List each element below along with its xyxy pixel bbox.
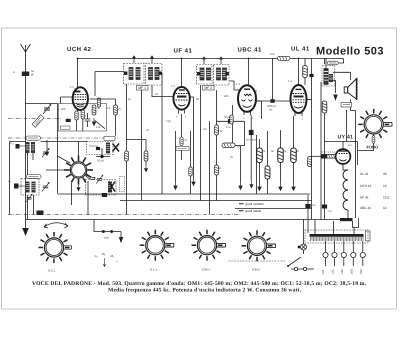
resistor R mid c1 xyxy=(144,151,148,161)
text coupling cap value xyxy=(267,105,277,112)
text mid resistor values xyxy=(184,130,299,170)
wire osc arrow xyxy=(46,140,48,148)
wire UL41 anode xyxy=(298,59,300,86)
wire UBC anode right xyxy=(256,101,262,119)
band switch S1 xyxy=(64,156,95,185)
svg-text:47 k: 47 k xyxy=(270,53,276,56)
wire plug dashed xyxy=(228,260,285,262)
resistor R grid stopper on rail xyxy=(278,56,291,60)
ground arrow speaker xyxy=(333,95,337,102)
svg-text:Media frequenza 445 kc. Potenz: Media frequenza 445 kc. Potenza d'uscita… xyxy=(108,288,302,294)
text pin labels UCH42 xyxy=(70,86,86,118)
capacitor C elec R10 xyxy=(265,166,270,179)
junction switch dots xyxy=(287,265,289,267)
wire R surge left xyxy=(312,155,322,157)
svg-text:1 M: 1 M xyxy=(96,126,100,129)
svg-text:F 3: F 3 xyxy=(236,83,240,86)
wire antenna lead xyxy=(25,76,27,228)
label MF1 xyxy=(137,86,149,91)
wire UY41 frame xyxy=(325,142,358,171)
svg-text:O.M.2: O.M.2 xyxy=(252,268,260,272)
resistor R1b xyxy=(75,111,78,120)
resistor R5 xyxy=(180,137,183,146)
wire L1 down xyxy=(28,153,34,178)
legend tone dots xyxy=(94,220,121,234)
wire R grid down xyxy=(324,113,326,142)
svg-text:0,1: 0,1 xyxy=(155,93,159,96)
wire UBC41 anode xyxy=(248,59,250,87)
svg-text:45: 45 xyxy=(383,172,387,176)
wire col j xyxy=(232,105,234,143)
speaker LS xyxy=(344,78,356,100)
wire UY41 cathode down xyxy=(343,164,348,170)
svg-text:0,5: 0,5 xyxy=(328,210,332,213)
blob cap AF xyxy=(249,130,253,134)
blob junction m1 xyxy=(306,204,310,207)
text AGC value xyxy=(224,116,231,129)
svg-text:UF 41: UF 41 xyxy=(174,48,193,55)
svg-text:MF 2: MF 2 xyxy=(204,86,212,90)
dial D1 xyxy=(39,232,72,263)
legend gradi xyxy=(246,202,265,213)
svg-text:UBC 41: UBC 41 xyxy=(360,206,371,210)
text blob AF value xyxy=(246,139,258,142)
tube UL41 xyxy=(291,85,307,116)
junction dot mains xyxy=(298,246,301,249)
wire right top vertical xyxy=(346,110,348,142)
wire col R5 down xyxy=(181,114,183,160)
wire section divider dash-dot xyxy=(8,214,240,216)
label MF2 xyxy=(203,86,215,91)
svg-text:F 4: F 4 xyxy=(288,80,292,83)
wire R10 down2 xyxy=(267,179,269,194)
text L1 label xyxy=(10,142,14,145)
resistor R2 xyxy=(92,105,96,115)
arrow legend xyxy=(103,258,105,267)
wire switch top lead xyxy=(78,142,80,156)
capacitor C2 trimmer xyxy=(43,104,51,114)
blob cap bus left xyxy=(37,211,44,216)
coil L2 xyxy=(14,179,39,196)
ground arrow col k xyxy=(250,181,253,188)
wire cathode bus xyxy=(120,200,312,202)
resistor R mid a1 xyxy=(125,151,129,161)
resistor R screen UL xyxy=(303,66,308,78)
wire col e xyxy=(190,131,192,194)
output transformer T1 xyxy=(322,59,338,87)
svg-text:14: 14 xyxy=(383,206,387,210)
wire UL41 screen xyxy=(307,99,311,101)
text misc values xyxy=(128,90,258,159)
wire divider dash-dot upper xyxy=(8,118,62,120)
svg-text:O.L.1: O.L.1 xyxy=(150,268,157,272)
text R stopper value xyxy=(270,53,276,56)
svg-text:R 9: R 9 xyxy=(253,90,258,93)
wire MF2 to UBC41 grid xyxy=(230,81,241,90)
wire OT to speaker xyxy=(333,72,350,93)
label box output xyxy=(341,103,352,108)
wire col R12 xyxy=(293,116,295,183)
wire chassis step xyxy=(353,218,359,228)
junction anode UF41 xyxy=(181,58,183,60)
wire coupling horizontal xyxy=(256,100,291,102)
tuning arc arrows xyxy=(44,223,68,228)
ground arrow left xyxy=(22,228,29,236)
ground arrow R12 xyxy=(292,183,295,191)
text heater voltages xyxy=(360,172,389,210)
tube UF41 xyxy=(173,87,189,114)
wire AVC bus xyxy=(58,193,311,195)
svg-text:UL 41: UL 41 xyxy=(360,172,369,176)
wire mid col b xyxy=(141,90,143,201)
chassis block xyxy=(340,218,353,221)
text pin labels UL41 xyxy=(288,80,303,121)
resistor R divider xyxy=(308,157,312,167)
trimmer C osc2 xyxy=(42,182,49,191)
capacitor C coupling UBC-UL blob xyxy=(270,99,274,103)
wire right vertical main xyxy=(311,59,313,220)
svg-text:tono: tono xyxy=(104,237,110,240)
svg-text:300: 300 xyxy=(224,95,229,98)
blob AGC xyxy=(228,120,232,124)
svg-text:0,1: 0,1 xyxy=(262,150,266,153)
capacitor C3 xyxy=(85,113,91,127)
ballast resistor comb xyxy=(305,230,368,243)
wire col i xyxy=(216,90,218,201)
wire UCH42 grid stub xyxy=(61,97,74,104)
svg-text:F 2: F 2 xyxy=(171,85,175,88)
svg-text:gradi metallici: gradi metallici xyxy=(246,202,265,206)
wire top B+ rail xyxy=(78,58,344,60)
svg-text:UBC 41: UBC 41 xyxy=(238,47,263,54)
blob junction m2 xyxy=(322,205,326,208)
text L2 label xyxy=(9,180,32,200)
svg-text:110: 110 xyxy=(322,269,325,274)
capacitor C elec 1 xyxy=(189,167,192,176)
terminal T4 xyxy=(351,241,356,266)
resistor R6b xyxy=(215,165,219,175)
oscillator section box xyxy=(59,104,107,132)
antenna xyxy=(21,44,31,76)
wire UCH42 anode xyxy=(77,59,79,88)
wire col R9 xyxy=(259,139,261,183)
wire diag osc xyxy=(95,121,105,129)
coil box L3 xyxy=(87,142,120,155)
blob cap osc left xyxy=(66,119,71,122)
switch mains xyxy=(288,250,304,266)
IF transformer MF1 xyxy=(124,64,163,86)
legend symbols xyxy=(239,204,244,211)
resistor R9 xyxy=(257,148,263,163)
resistor R7 horizontal xyxy=(222,143,235,148)
terminal T3 xyxy=(341,241,346,266)
svg-text:a 5: a 5 xyxy=(348,144,352,147)
svg-text:0,1: 0,1 xyxy=(107,107,111,110)
coil box L4 xyxy=(86,180,117,196)
text osc values xyxy=(61,107,121,129)
IF transformer MF2 xyxy=(197,65,230,86)
svg-text:125: 125 xyxy=(332,269,335,274)
svg-text:0,1: 0,1 xyxy=(269,109,273,112)
dial D3 xyxy=(192,230,226,261)
wire col R11 xyxy=(280,130,282,183)
vertical dashed label right xyxy=(120,177,125,192)
junction anode UL41 xyxy=(298,58,300,60)
svg-text:VOCE DEL PADRONE - Mod. 503. Q: VOCE DEL PADRONE - Mod. 503. Quattro gam… xyxy=(32,281,367,287)
wire col f xyxy=(190,97,194,178)
ground arrow col R7b xyxy=(239,182,242,190)
trimmer arrow MF1 primary xyxy=(133,56,135,63)
ground arrow osc xyxy=(45,148,48,156)
wire speaker return xyxy=(351,99,356,218)
resistor R11 xyxy=(278,148,284,163)
wire feed right xyxy=(321,82,325,220)
svg-text:M₂: M₂ xyxy=(111,254,115,258)
wire UY41 anode top xyxy=(342,142,344,150)
svg-text:A: A xyxy=(13,71,15,74)
wire lamp up xyxy=(303,229,305,244)
inductor heater chain xyxy=(343,170,348,210)
label R5 xyxy=(176,147,189,151)
junction anode UBC41 xyxy=(248,58,250,60)
capacitor C1 antenna series xyxy=(22,72,29,77)
plug pins xyxy=(291,267,314,270)
resistor lamp series xyxy=(372,136,375,144)
wire coil row top xyxy=(10,142,87,215)
wire rail end hook xyxy=(338,59,343,64)
text UY41 pin xyxy=(348,144,352,147)
resistor R surge xyxy=(321,152,335,158)
wire UL41 anode to OT xyxy=(324,59,326,65)
arrow tone xyxy=(119,232,122,243)
text C1 values xyxy=(13,70,34,77)
wire heater chain bottom xyxy=(347,210,349,218)
resistor R6 xyxy=(215,125,219,135)
svg-text:140: 140 xyxy=(341,269,344,274)
svg-text:UCH 42: UCH 42 xyxy=(67,46,92,53)
wire switch left lead xyxy=(46,169,64,171)
wire R mid c1 leads xyxy=(127,140,147,166)
trimmer C osc1 xyxy=(42,148,49,157)
svg-text:5 pF: 5 pF xyxy=(166,120,172,123)
svg-text:4,5 pF: 4,5 pF xyxy=(97,160,105,163)
terminal T2 xyxy=(332,241,337,266)
tube UCH42 xyxy=(73,87,88,113)
junction anode UCH42 xyxy=(77,58,79,60)
wire col k xyxy=(250,115,252,181)
blob screen tap xyxy=(310,74,314,77)
ground arrow R11 xyxy=(279,183,282,191)
wire mains feed 1 xyxy=(303,220,305,230)
label pill L3 xyxy=(104,137,115,141)
wire osc anode to MF1 xyxy=(95,72,124,97)
label box osc bottom xyxy=(61,126,71,129)
tube UY41 xyxy=(336,149,351,164)
text R7 value xyxy=(237,145,241,148)
resistor R grid UL41 xyxy=(322,101,327,113)
wire switch diag upleft xyxy=(58,156,71,163)
svg-text:0,1: 0,1 xyxy=(312,204,316,207)
text pin labels UBC41 xyxy=(236,83,253,120)
svg-text:M₁: M₁ xyxy=(102,252,105,256)
svg-text:UCH 42: UCH 42 xyxy=(360,184,372,188)
wire R screen leads xyxy=(304,59,306,86)
tube UBC41 xyxy=(238,85,256,115)
svg-text:200: 200 xyxy=(61,108,66,111)
wire UF41 anode xyxy=(181,59,183,89)
svg-text:0,5: 0,5 xyxy=(203,128,207,131)
trimmer arrow MF2 secondary xyxy=(220,57,222,64)
wire col h xyxy=(209,121,211,214)
blob cap OC xyxy=(96,147,100,150)
svg-text:0,1: 0,1 xyxy=(283,150,287,153)
coil L1 xyxy=(16,142,35,152)
label pill osc OC xyxy=(27,175,42,179)
dial sunburst fono xyxy=(358,109,392,140)
wire mains feed 2 xyxy=(333,221,335,234)
wire R4 down xyxy=(90,99,116,136)
text voltage taps xyxy=(322,269,363,274)
svg-text:FONO: FONO xyxy=(367,145,379,150)
ground arrow R mid c1 xyxy=(144,165,147,172)
wire oscillator divider dash-dot xyxy=(8,137,118,139)
svg-text:UY 41: UY 41 xyxy=(338,135,354,141)
svg-text:160: 160 xyxy=(351,269,354,274)
terminal T1 xyxy=(323,241,328,266)
text pin labels UF41 xyxy=(171,85,186,119)
wire grid feed vertical xyxy=(272,59,274,100)
resistor R4 xyxy=(114,105,118,115)
wire col R7b down xyxy=(240,146,242,183)
label pill osc OM xyxy=(26,136,41,140)
svg-text:1 M: 1 M xyxy=(218,130,222,133)
legend switch positions xyxy=(95,252,119,264)
svg-text:2 m: 2 m xyxy=(226,126,230,129)
trimmer arrow MF2 primary xyxy=(203,57,205,64)
wire col R10 xyxy=(267,131,269,166)
wire mains feed 3 xyxy=(315,220,354,234)
blob cap osc2 xyxy=(102,193,106,196)
trimmer arrow MF1 secondary xyxy=(151,56,153,63)
svg-text:O.M.1: O.M.1 xyxy=(202,268,210,272)
svg-text:14: 14 xyxy=(383,184,387,188)
svg-text:pF: pF xyxy=(31,74,34,77)
wire R1 down xyxy=(77,119,83,131)
svg-text:UL 41: UL 41 xyxy=(291,46,310,53)
wire MF1 to UF41 grid xyxy=(152,85,174,97)
wire col l xyxy=(256,135,258,194)
wire AGC line xyxy=(217,120,245,122)
ground arrow R9 xyxy=(258,183,261,191)
terminal T5 xyxy=(360,241,365,266)
ground R2 arrow xyxy=(92,118,95,126)
lamp pilot X xyxy=(301,244,307,250)
text m values xyxy=(312,204,332,213)
ground arrow col d xyxy=(174,182,177,190)
wire col g xyxy=(200,85,202,201)
svg-text:UF 41: UF 41 xyxy=(360,196,369,200)
svg-text:12,6: 12,6 xyxy=(383,196,389,200)
resistor R12 xyxy=(291,148,297,163)
svg-text:C₁₂: C₁₂ xyxy=(10,142,14,145)
resistor R1 xyxy=(81,110,84,119)
svg-text:220: 220 xyxy=(360,269,363,274)
text blob value xyxy=(97,160,105,163)
svg-text:Modello 503: Modello 503 xyxy=(316,46,384,58)
wire feed left xyxy=(307,195,309,233)
trimmer C osc3 xyxy=(96,175,103,184)
ground arrow switch xyxy=(77,184,80,191)
svg-text:gradi radiali: gradi radiali xyxy=(246,209,262,213)
wire mid col c xyxy=(161,73,163,194)
trimmer L2 xyxy=(26,194,32,202)
svg-text:C₂: C₂ xyxy=(95,254,98,258)
wire L2 down xyxy=(28,195,34,220)
wire screen bus xyxy=(235,208,312,210)
svg-text:O.C.1: O.C.1 xyxy=(48,269,56,273)
wire switch down leads xyxy=(72,181,89,215)
wire mid col d xyxy=(175,131,177,182)
wire lamp leads xyxy=(358,134,374,151)
resistor R8 xyxy=(230,115,233,124)
label ballast xyxy=(366,231,371,241)
wire left col 57 xyxy=(57,104,59,194)
wire blob osc xyxy=(96,148,110,157)
wire bottom chassis bus xyxy=(26,219,341,221)
wire mid col a xyxy=(126,84,128,215)
label rotated antenna xyxy=(32,115,44,128)
resistor R3 xyxy=(97,98,100,107)
wire R7 right xyxy=(235,122,245,146)
svg-text:MF 1: MF 1 xyxy=(138,86,146,90)
junction blob osc xyxy=(100,155,103,158)
dial D4 xyxy=(242,230,276,261)
wire antenna coupling xyxy=(26,103,58,105)
svg-text:F 1: F 1 xyxy=(70,86,74,89)
arrow col f xyxy=(192,178,195,186)
dial D2 xyxy=(140,230,174,261)
